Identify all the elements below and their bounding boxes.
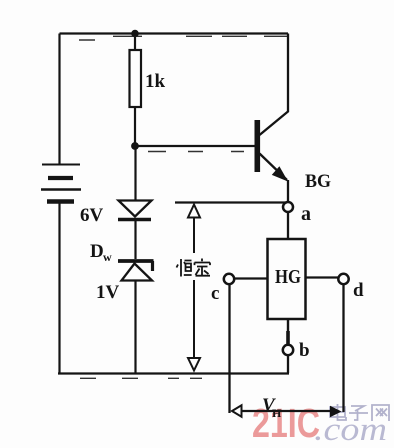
node junction top [131,30,139,38]
transistor emitter arrow [272,166,288,181]
svg-text:c: c [211,283,219,304]
diode 6V [118,201,152,220]
svg-text:b: b [299,340,310,361]
watermark .com [314,412,387,448]
dimension vertical line [193,218,195,360]
wire: zener to bottom rail [134,281,136,373]
wire: base wire [135,145,255,147]
zener diode Dw 1V [118,261,154,281]
wire: HG to node d [306,276,339,278]
wire: resistor top lead [134,34,136,51]
svg-text:BG: BG [305,171,331,192]
dimension VH right arrow [330,406,342,417]
svg-text:H: H [272,406,282,420]
dimension line top (constant-current marker) [175,201,287,203]
wire: node c to HG [234,277,268,279]
svg-text:w: w [103,250,112,264]
dimension arrow down [188,358,200,371]
wire: resistor bottom lead [134,107,136,146]
svg-text:D: D [90,241,104,262]
wire: node a to HG [287,212,289,239]
wire: left vertical lower [58,203,60,374]
dimension VH left arrow [232,405,242,416]
watermark 电子网 [330,404,389,421]
wire: bottom rail [58,372,289,374]
scan artifact dashes [79,36,287,378]
wire: junction to diode [134,146,136,201]
node d [338,274,348,284]
transistor emitter lead [260,154,288,181]
wire: between diodes [134,221,136,259]
resistor R 1k [130,50,142,107]
wire: node c down lead [228,284,230,413]
transistor collector lead [260,34,289,136]
hall generator HG box [268,239,306,319]
node a [283,202,293,212]
node b [283,345,293,355]
svg-text:.com: .com [314,412,387,448]
dimension VH line [242,410,331,412]
battery B 6V plates [41,165,81,202]
svg-text:1k: 1k [145,71,166,92]
watermark 21IC [252,400,320,446]
transistor BG base bar [254,120,260,172]
svg-text:d: d [353,280,364,301]
svg-text:6V: 6V [80,205,104,226]
wire: emitter to node a [287,180,289,202]
svg-text:HG: HG [275,266,301,288]
node c [224,274,234,284]
label 恒定 (constant) [177,259,211,277]
wire: node b to bottom rail [287,355,289,373]
svg-text:1V: 1V [96,282,120,303]
wire: HG bottom to node b [287,319,289,345]
svg-text:a: a [301,203,311,225]
wire: left vertical upper [58,34,60,165]
wire: top rail [60,32,289,34]
wire: node d down lead [342,285,344,413]
dimension arrow up [188,205,200,218]
node junction base [131,142,139,150]
